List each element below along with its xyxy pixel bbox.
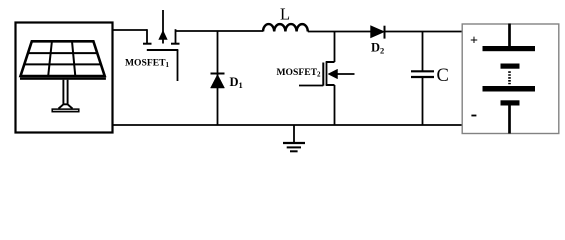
capacitor C top plate bbox=[411, 70, 434, 72]
solar panel grid column line 2 bbox=[72, 41, 75, 76]
capacitor C bottom plate bbox=[411, 76, 434, 78]
MOSFET Q1 gate lead bbox=[177, 50, 179, 81]
wire: MOSFET1 drain to inductor (through node with D1) bbox=[176, 30, 264, 32]
svg-text:MOSFET2: MOSFET2 bbox=[277, 67, 322, 79]
label - terminal bbox=[471, 115, 476, 117]
MOSFET Q2 channel bar bbox=[326, 62, 328, 85]
svg-text:C: C bbox=[437, 66, 449, 86]
ground symbol bar 3 bbox=[290, 150, 298, 152]
diode D2 cathode bar bbox=[384, 26, 386, 39]
solar panel grid row line 2 bbox=[24, 63, 101, 65]
MOSFET Q2 lower contact foot bbox=[326, 84, 335, 86]
battery box bbox=[462, 24, 559, 134]
svg-text:L: L bbox=[280, 5, 290, 24]
solar panel base bbox=[52, 109, 79, 112]
ground symbol stub bbox=[293, 125, 295, 143]
wire: D1 branch vertical bbox=[217, 31, 219, 125]
svg-text:D1: D1 bbox=[230, 75, 243, 90]
MOSFET Q1 (MOSFET1) left terminal stub bbox=[146, 29, 148, 43]
MOSFET Q2 upper contact foot bbox=[326, 61, 335, 63]
svg-text:MOSFET1: MOSFET1 bbox=[125, 57, 170, 69]
battery cell plate long 1 bbox=[483, 46, 536, 51]
wire: D2 cathode to battery box (with capacitor node) bbox=[385, 31, 463, 33]
MOSFET Q1 gate bar bbox=[147, 49, 179, 51]
wire: bottom ground rail bbox=[112, 124, 462, 126]
MOSFET Q2 (MOSFET2) drain stub bbox=[334, 32, 336, 63]
battery cell plate short 2 bbox=[501, 100, 520, 105]
ground symbol bar 2 bbox=[287, 146, 301, 148]
diode D1 cathode bar bbox=[211, 73, 225, 75]
battery top lead bbox=[508, 24, 511, 47]
wire: inductor to D2 anode (with MOSFET2 drain node) bbox=[308, 31, 372, 33]
wire: capacitor top lead bbox=[422, 32, 424, 71]
svg-text:+: + bbox=[470, 33, 478, 48]
MOSFET Q1 right terminal stub bbox=[175, 29, 177, 43]
MOSFET Q2 bulk arrow lead bbox=[338, 73, 355, 75]
wire: capacitor bottom lead bbox=[422, 77, 424, 125]
solar panel pole bbox=[59, 80, 73, 109]
diode D1 triangle bbox=[211, 75, 225, 89]
inductor L coil bbox=[263, 24, 308, 31]
MOSFET Q1 left contact foot bbox=[143, 43, 152, 45]
MOSFET Q1 bulk arrow head bbox=[159, 31, 167, 40]
ground symbol bar 1 bbox=[283, 142, 305, 144]
solar panel grid column line 1 bbox=[48, 41, 52, 76]
MOSFET Q2 source stub to ground rail bbox=[334, 85, 336, 125]
MOSFET Q2 bulk arrow head bbox=[328, 69, 338, 79]
MOSFET Q1 right contact foot bbox=[171, 43, 180, 45]
battery cell plate short 1 bbox=[501, 64, 520, 69]
diode D2 triangle bbox=[371, 26, 385, 38]
solar panel bottom ledge bbox=[20, 77, 106, 80]
battery dotted continuation bbox=[508, 71, 511, 84]
solar panel array frame bbox=[21, 41, 105, 76]
MOSFET Q2 gate lead bbox=[299, 85, 323, 87]
MOSFET Q1 bulk arrow lead bbox=[162, 10, 164, 44]
battery bottom lead bbox=[508, 106, 511, 134]
solar panel grid row line 1 bbox=[28, 52, 97, 54]
solar panel box (PV source) bbox=[16, 23, 113, 133]
wire: PV box to MOSFET1 source bbox=[112, 29, 147, 31]
svg-text:D2: D2 bbox=[371, 41, 384, 56]
battery cell plate long 2 bbox=[483, 86, 536, 92]
MOSFET Q2 gate bar bbox=[322, 63, 324, 86]
